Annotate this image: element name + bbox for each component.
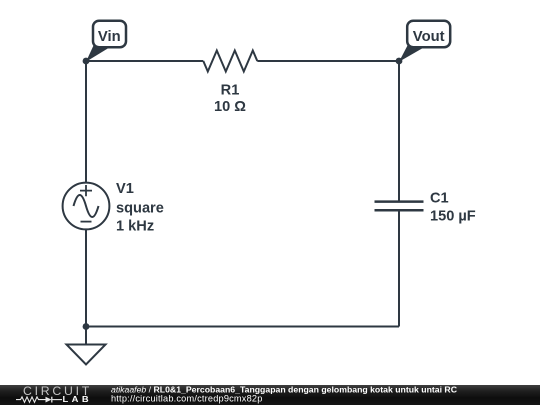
junction dot Vin node xyxy=(83,58,90,65)
wire: right rail lower (C1 to bottom rail) xyxy=(398,210,400,326)
voltage source V1 xyxy=(63,183,110,230)
wire: right rail upper (Vout node to C1) xyxy=(398,61,400,202)
ground xyxy=(67,327,106,365)
wire: left rail lower (V1 bottom to ground node) xyxy=(85,229,87,326)
svg-text:V1: V1 xyxy=(116,181,134,197)
resistor R1 xyxy=(203,51,257,72)
wire: bottom rail (ground node to right rail) xyxy=(86,326,399,328)
junction dot Vout node xyxy=(396,58,403,65)
svg-text:Vin: Vin xyxy=(98,29,121,45)
label R1 value xyxy=(214,83,246,116)
footer bar xyxy=(0,385,540,405)
capacitor C1 xyxy=(375,202,424,211)
label V1 values xyxy=(116,181,164,234)
junction dot ground node xyxy=(83,323,90,330)
svg-text:http://circuitlab.com/ctredp9c: http://circuitlab.com/ctredp9cmx82p xyxy=(111,394,263,404)
svg-text:Vout: Vout xyxy=(413,29,445,45)
CircuitLab logo xyxy=(16,385,92,404)
node Vin flag xyxy=(86,21,126,62)
wire: top rail left segment (Vin node to R1) xyxy=(86,60,203,62)
svg-text:square: square xyxy=(116,200,164,216)
svg-text:1 kHz: 1 kHz xyxy=(116,218,154,234)
svg-text:150 µF: 150 µF xyxy=(430,208,476,224)
node Vout flag xyxy=(399,21,450,62)
label C1 values xyxy=(430,190,476,224)
wire: top rail right segment (R1 to Vout node) xyxy=(257,60,399,62)
svg-text:C1: C1 xyxy=(430,190,449,206)
svg-text:R1: R1 xyxy=(221,83,240,99)
wire: left rail upper (Vin node to V1 top) xyxy=(85,61,87,183)
svg-text:LAB: LAB xyxy=(63,395,93,404)
svg-text:10 Ω: 10 Ω xyxy=(214,99,246,115)
